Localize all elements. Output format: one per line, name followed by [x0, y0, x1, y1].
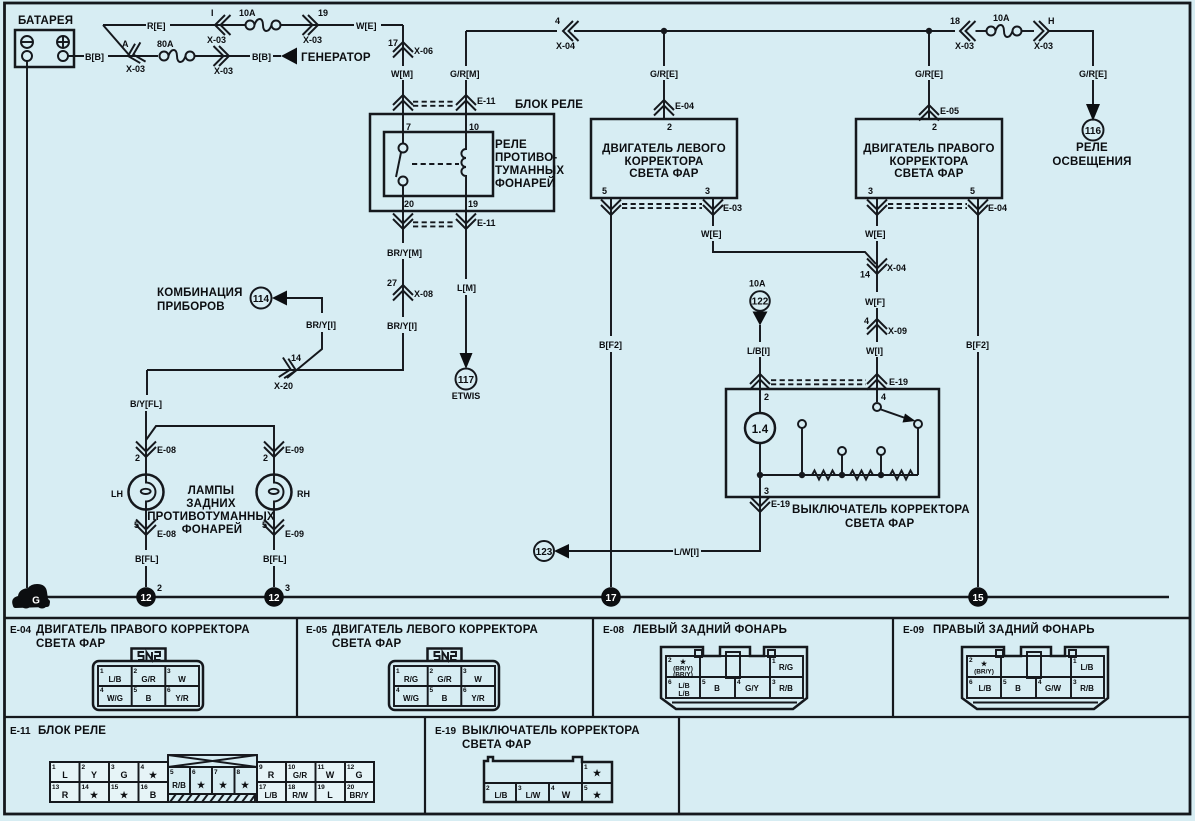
svg-text:7: 7 [406, 122, 411, 132]
svg-text:R/G: R/G [404, 675, 418, 684]
svg-text:L/W[I]: L/W[I] [674, 547, 699, 557]
svg-text:LH: LH [111, 489, 123, 499]
switch arm pin4 [876, 389, 878, 402]
svg-text:СВЕТА ФАР: СВЕТА ФАР [36, 638, 106, 650]
wire W[I] [876, 357, 878, 389]
svg-text:B: B [150, 790, 157, 800]
svg-text:СВЕТА ФАР: СВЕТА ФАР [462, 739, 532, 751]
svg-text:80A: 80A [157, 39, 174, 49]
ground node 12 LH [136, 587, 156, 607]
svg-text:G: G [355, 770, 362, 780]
svg-text:E-05: E-05 [306, 625, 328, 636]
svg-text:R/B: R/B [779, 684, 793, 693]
svg-text:6: 6 [969, 679, 973, 686]
svg-text:★: ★ [593, 768, 602, 778]
svg-text:116: 116 [1085, 126, 1102, 137]
node junction dot right motor [926, 28, 932, 34]
svg-text:14: 14 [291, 353, 301, 363]
connector X-04 14 [867, 259, 887, 275]
wire R[E] [103, 24, 245, 26]
svg-text:L: L [327, 790, 333, 800]
connector X-04 4 [563, 21, 579, 41]
svg-text:E-09: E-09 [285, 529, 304, 539]
svg-text:★: ★ [90, 790, 99, 800]
svg-text:ETWIS: ETWIS [452, 391, 481, 401]
connector E-03 pin3 bottom [703, 200, 723, 216]
svg-text:12: 12 [347, 764, 355, 771]
wire B[FL] RH [273, 566, 275, 587]
svg-text:W[M]: W[M] [391, 69, 413, 79]
fog lamp relay inner box [384, 132, 493, 196]
svg-text:E-08: E-08 [157, 529, 176, 539]
battery [15, 30, 74, 67]
svg-text:R/B: R/B [1080, 684, 1094, 693]
connector E-11 pin7 top [393, 95, 413, 111]
svg-text:6: 6 [668, 679, 672, 686]
svg-text:10A: 10A [993, 13, 1010, 23]
svg-text:3: 3 [167, 668, 171, 675]
wire B[F2] left [610, 198, 612, 587]
svg-text:2: 2 [430, 668, 434, 675]
svg-text:G/R[E]: G/R[E] [650, 69, 678, 79]
svg-text:16: 16 [141, 784, 149, 791]
svg-text:B[F2]: B[F2] [966, 340, 989, 350]
LH rear fog lamp [145, 411, 147, 475]
svg-text:ФОНАРЕЙ: ФОНАРЕЙ [495, 177, 555, 190]
contact 3 [877, 447, 885, 455]
connector X-06 [393, 42, 413, 58]
svg-text:17: 17 [259, 784, 267, 791]
svg-text:E-19: E-19 [771, 499, 790, 509]
contact 4 riser [917, 428, 919, 475]
svg-text:БАТАРЕЯ: БАТАРЕЯ [18, 15, 73, 27]
ground node 15 [968, 587, 988, 607]
svg-text:H: H [1048, 16, 1055, 26]
svg-text:РЕЛЕ: РЕЛЕ [495, 139, 527, 151]
svg-text:L/B: L/B [1081, 663, 1094, 672]
resistor 1 [812, 471, 835, 480]
svg-text:3: 3 [111, 764, 115, 771]
svg-text:E-19: E-19 [435, 726, 457, 737]
svg-text:7: 7 [214, 769, 218, 776]
svg-text:B: B [146, 694, 152, 703]
svg-text:E-19: E-19 [889, 377, 908, 387]
svg-text:2: 2 [263, 453, 268, 463]
fuse 10A left [246, 19, 281, 31]
svg-text:1.4: 1.4 [752, 424, 769, 436]
node 123 [534, 541, 554, 561]
svg-text:20: 20 [404, 199, 414, 209]
svg-text:W[E]: W[E] [865, 229, 886, 239]
wire BR/Y[M] [402, 229, 404, 317]
svg-text:L/B: L/B [495, 791, 508, 800]
svg-text:1: 1 [52, 764, 56, 771]
svg-text:BR/Y[M]: BR/Y[M] [387, 248, 422, 258]
svg-text:ТУМАННЫХ: ТУМАННЫХ [495, 165, 564, 177]
node 116 [1083, 120, 1104, 141]
svg-text:X-03: X-03 [207, 35, 226, 45]
fuse 80A [160, 50, 195, 62]
relay switch contacts [399, 144, 408, 153]
svg-text:Y/R: Y/R [175, 694, 189, 703]
svg-text:R: R [268, 770, 275, 780]
svg-text:ПРАВЫЙ ЗАДНИЙ ФОНАРЬ: ПРАВЫЙ ЗАДНИЙ ФОНАРЬ [933, 623, 1095, 636]
svg-text:1: 1 [772, 658, 776, 665]
ground G car symbol [12, 584, 50, 609]
svg-text:W: W [326, 770, 335, 780]
svg-text:4: 4 [881, 392, 886, 402]
svg-text:10: 10 [288, 764, 296, 771]
svg-text:БЛОК РЕЛЕ: БЛОК РЕЛЕ [38, 725, 106, 737]
svg-text:4: 4 [551, 785, 555, 792]
svg-text:2: 2 [135, 453, 140, 463]
svg-text:122: 122 [752, 297, 769, 308]
E-05 connector [389, 649, 499, 711]
E-08 connector [661, 647, 807, 709]
relay dashed link [412, 163, 459, 165]
svg-text:СВЕТА ФАР: СВЕТА ФАР [894, 168, 964, 180]
svg-text:★: ★ [981, 660, 988, 668]
svg-text:ПРОТИВОТУМАННЫХ: ПРОТИВОТУМАННЫХ [147, 511, 275, 523]
svg-text:I: I [211, 8, 214, 18]
svg-text:(BR/Y): (BR/Y) [673, 672, 693, 679]
wire BR/Y[I] left [287, 298, 322, 378]
wire L/W[I] [569, 497, 760, 551]
svg-text:★: ★ [241, 780, 250, 790]
svg-text:15: 15 [972, 593, 984, 604]
svg-text:★: ★ [593, 790, 602, 800]
svg-text:9: 9 [259, 764, 263, 771]
svg-text:X-03: X-03 [303, 35, 322, 45]
wire battery plus B[B] [68, 55, 129, 57]
resistor 3 [890, 471, 913, 480]
wire G/R[E] left motor [663, 31, 665, 119]
svg-text:2: 2 [969, 657, 973, 664]
connector E-11 pin19 bottom [456, 214, 476, 230]
svg-text:W: W [178, 675, 186, 684]
svg-text:4: 4 [555, 16, 560, 26]
svg-text:L/B[I]: L/B[I] [747, 346, 770, 356]
svg-text:19: 19 [318, 8, 328, 18]
resistor 2 [850, 471, 873, 480]
svg-text:E-03: E-03 [723, 203, 742, 213]
svg-text:15: 15 [111, 784, 119, 791]
svg-text:СВЕТА ФАР: СВЕТА ФАР [332, 638, 402, 650]
wire 80A branch [129, 55, 158, 57]
svg-text:★: ★ [120, 790, 129, 800]
svg-text:E-09: E-09 [903, 625, 925, 636]
svg-text:11: 11 [318, 764, 325, 771]
svg-text:18: 18 [950, 16, 960, 26]
svg-text:Y: Y [91, 770, 97, 780]
contact 1 [798, 420, 806, 428]
svg-text:E-05: E-05 [940, 106, 959, 116]
svg-text:L[M]: L[M] [457, 283, 476, 293]
wire L[M] [465, 229, 467, 353]
svg-text:BR/Y[I]: BR/Y[I] [387, 321, 417, 331]
svg-text:3: 3 [705, 186, 710, 196]
svg-text:2: 2 [668, 657, 672, 664]
wire diagonal to R[E] [103, 25, 130, 56]
right corrector motor box [856, 119, 1002, 198]
svg-text:E-09: E-09 [285, 445, 304, 455]
wire G/R[E] right motor [928, 31, 930, 119]
svg-text:W[I]: W[I] [866, 346, 883, 356]
svg-text:G/W: G/W [1045, 684, 1061, 693]
svg-text:E-08: E-08 [603, 625, 625, 636]
svg-text:W[F]: W[F] [865, 297, 885, 307]
wire W[E] right vertical [876, 198, 878, 292]
svg-text:3: 3 [463, 668, 467, 675]
arrow to 117 [460, 353, 473, 369]
ground node 17 [601, 587, 621, 607]
table grid [4, 618, 1189, 813]
connector E-04 top [654, 100, 674, 116]
connector E-05 top [919, 105, 939, 121]
svg-text:1: 1 [396, 668, 400, 675]
generator arrow [281, 48, 297, 65]
svg-text:Y/R: Y/R [471, 694, 485, 703]
svg-text:R: R [62, 790, 69, 800]
svg-text:КОРРЕКТОРА: КОРРЕКТОРА [890, 156, 969, 168]
svg-text:117: 117 [458, 375, 475, 386]
arrow to 116 [1086, 104, 1100, 121]
svg-text:5: 5 [134, 687, 138, 694]
svg-text:5: 5 [702, 679, 706, 686]
svg-text:17: 17 [388, 38, 398, 48]
svg-text:E-04: E-04 [10, 625, 32, 636]
svg-text:1: 1 [1073, 658, 1077, 665]
svg-text:ЛАМПЫ: ЛАМПЫ [188, 485, 234, 497]
wire W[E] left [713, 198, 876, 264]
svg-text:B: B [1015, 684, 1021, 693]
svg-text:X-06: X-06 [414, 46, 433, 56]
svg-text:5: 5 [1003, 679, 1007, 686]
svg-text:17: 17 [605, 593, 617, 604]
switch internal bus [760, 474, 918, 476]
svg-text:2: 2 [764, 392, 769, 402]
svg-text:2: 2 [82, 764, 86, 771]
svg-text:ЗАДНИХ: ЗАДНИХ [186, 498, 236, 510]
svg-text:ГЕНЕРАТОР: ГЕНЕРАТОР [301, 52, 371, 64]
svg-text:10A: 10A [239, 8, 256, 18]
svg-text:4: 4 [141, 764, 145, 771]
svg-text:ОСВЕЩЕНИЯ: ОСВЕЩЕНИЯ [1052, 156, 1131, 168]
node 117 ETWIS [456, 369, 477, 390]
wire pin20 [402, 186, 404, 230]
svg-text:19: 19 [468, 199, 478, 209]
svg-text:ПРОТИВО-: ПРОТИВО- [495, 152, 557, 164]
svg-text:L: L [62, 770, 68, 780]
svg-text:10: 10 [469, 122, 479, 132]
svg-text:ПРИБОРОВ: ПРИБОРОВ [157, 301, 225, 313]
node junction X-03 A [125, 42, 145, 65]
svg-text:КОРРЕКТОРА: КОРРЕКТОРА [625, 156, 704, 168]
svg-text:X-03: X-03 [1034, 41, 1053, 51]
svg-text:G/R[E]: G/R[E] [915, 69, 943, 79]
wire W[M] vertical [402, 25, 404, 93]
svg-text:R/W: R/W [292, 791, 308, 800]
wire L/B[I] [759, 325, 761, 389]
svg-text:B[FL]: B[FL] [263, 554, 287, 564]
svg-text:L/B: L/B [678, 691, 689, 698]
svg-text:6: 6 [192, 769, 196, 776]
svg-text:8: 8 [237, 769, 241, 776]
svg-text:5: 5 [602, 186, 607, 196]
wire G/R[E] to 116 [1049, 31, 1093, 104]
svg-text:5: 5 [430, 687, 434, 694]
connector E-04 pin3 bottom [867, 200, 887, 216]
svg-text:5: 5 [584, 785, 588, 792]
svg-text:2: 2 [932, 122, 937, 132]
svg-text:3: 3 [764, 486, 769, 496]
svg-text:X-08: X-08 [414, 289, 433, 299]
wire B[F2] right [977, 198, 979, 587]
svg-text:G/Y: G/Y [745, 684, 759, 693]
ground node 12 RH [264, 587, 284, 607]
wire pin19 [465, 196, 467, 229]
svg-text:X-09: X-09 [888, 326, 907, 336]
wire pin7 into relay [402, 93, 404, 144]
svg-text:4: 4 [864, 316, 869, 326]
svg-text:РЕЛЕ: РЕЛЕ [1076, 142, 1108, 154]
svg-text:5: 5 [170, 769, 174, 776]
svg-text:E-04: E-04 [675, 101, 694, 111]
svg-text:19: 19 [318, 784, 326, 791]
svg-text:2: 2 [134, 668, 138, 675]
svg-text:3: 3 [868, 186, 873, 196]
svg-text:BR/Y[I]: BR/Y[I] [306, 320, 336, 330]
wire BR/Y[I] right [296, 333, 403, 370]
connector X-03 H [1022, 30, 1034, 32]
contact 2 [838, 447, 846, 455]
svg-text:E-11: E-11 [477, 96, 496, 106]
svg-text:E-11: E-11 [477, 218, 496, 228]
wire battery minus to ground [26, 61, 28, 588]
svg-text:B: B [714, 684, 720, 693]
svg-text:6: 6 [167, 687, 171, 694]
svg-text:B/Y[FL]: B/Y[FL] [130, 399, 162, 409]
svg-text:ВЫКЛЮЧАТЕЛЬ КОРРЕКТОРА: ВЫКЛЮЧАТЕЛЬ КОРРЕКТОРА [792, 504, 970, 516]
svg-text:ЛЕВЫЙ ЗАДНИЙ ФОНАРЬ: ЛЕВЫЙ ЗАДНИЙ ФОНАРЬ [633, 623, 787, 636]
svg-text:X-03: X-03 [126, 64, 145, 74]
svg-text:5: 5 [262, 520, 267, 530]
svg-text:3: 3 [285, 583, 290, 593]
svg-text:X-04: X-04 [556, 41, 575, 51]
leveling switch box [726, 389, 939, 497]
svg-text:G: G [32, 596, 40, 607]
svg-text:КОМБИНАЦИЯ: КОМБИНАЦИЯ [157, 287, 243, 299]
arrow to 114 [272, 291, 287, 306]
svg-text:1: 1 [584, 764, 588, 771]
svg-text:ДВИГАТЕЛЬ ЛЕВОГО КОРРЕКТОРА: ДВИГАТЕЛЬ ЛЕВОГО КОРРЕКТОРА [332, 624, 538, 636]
svg-text:E-08: E-08 [157, 445, 176, 455]
svg-text:10A: 10A [749, 279, 766, 289]
wire B[B] generator [229, 55, 281, 57]
svg-text:L/B: L/B [109, 675, 122, 684]
wire B/Y[FL] down [147, 370, 296, 395]
svg-text:G: G [120, 770, 127, 780]
svg-text:12: 12 [268, 593, 280, 604]
connector E-09 pin5 [273, 510, 275, 551]
RH rear fog lamp [257, 475, 292, 510]
ground bus [44, 596, 1169, 599]
svg-text:W[E]: W[E] [356, 21, 377, 31]
arrow from 122 [753, 312, 768, 326]
svg-text:G/R: G/R [141, 675, 155, 684]
svg-text:B[FL]: B[FL] [135, 554, 159, 564]
svg-text:L/B: L/B [979, 684, 992, 693]
node 114 [251, 288, 272, 309]
connector X-03 I [215, 15, 231, 35]
wire B[FL] LH [145, 566, 147, 587]
wire W[F] [876, 308, 878, 342]
svg-text:★: ★ [219, 780, 228, 790]
svg-text:★: ★ [197, 780, 206, 790]
svg-text:L/B: L/B [678, 683, 689, 690]
svg-text:L/W: L/W [526, 791, 541, 800]
svg-text:B[B]: B[B] [85, 52, 104, 62]
svg-text:W/G: W/G [403, 694, 419, 703]
E-19 connector [484, 757, 612, 802]
svg-text:W/G: W/G [107, 694, 123, 703]
svg-text:14: 14 [82, 784, 90, 791]
svg-text:ДВИГАТЕЛЬ ПРАВОГО: ДВИГАТЕЛЬ ПРАВОГО [863, 143, 994, 155]
svg-text:СВЕТА ФАР: СВЕТА ФАР [845, 518, 915, 530]
svg-text:3: 3 [772, 679, 776, 686]
svg-text:X-20: X-20 [274, 381, 293, 391]
svg-text:2: 2 [157, 583, 162, 593]
connector E-19 pin4 top [867, 374, 887, 390]
svg-text:27: 27 [387, 278, 397, 288]
svg-text:2: 2 [486, 785, 490, 792]
wire branch to RH lamp [146, 426, 274, 475]
svg-text:★: ★ [149, 770, 158, 780]
svg-text:БЛОК РЕЛЕ: БЛОК РЕЛЕ [515, 99, 583, 111]
svg-text:G/R: G/R [293, 771, 307, 780]
connector X-20 14 [279, 357, 298, 380]
svg-text:114: 114 [253, 294, 270, 305]
svg-text:СВЕТА ФАР: СВЕТА ФАР [629, 168, 699, 180]
connector E-11 pin10 top [456, 95, 476, 111]
svg-text:X-03: X-03 [214, 66, 233, 76]
wire top bus right [466, 30, 955, 32]
svg-text:123: 123 [536, 547, 553, 558]
arrow to 123 [554, 544, 569, 559]
svg-text:2: 2 [667, 122, 672, 132]
connector E-11 pin20 bottom [393, 214, 413, 230]
svg-text:BR/Y: BR/Y [349, 791, 369, 800]
svg-text:ДВИГАТЕЛЬ ЛЕВОГО: ДВИГАТЕЛЬ ЛЕВОГО [602, 143, 726, 155]
svg-text:G/R[E]: G/R[E] [1079, 69, 1107, 79]
svg-text:B[F2]: B[F2] [599, 340, 622, 350]
svg-text:X-04: X-04 [887, 263, 906, 273]
svg-text:R/G: R/G [779, 663, 793, 672]
svg-text:6: 6 [463, 687, 467, 694]
connector E-03 pin5 bottom [601, 200, 621, 216]
connector E-08 pin2 [136, 442, 156, 458]
svg-text:W: W [474, 675, 482, 684]
E-11 connector [50, 755, 374, 802]
svg-text:5: 5 [970, 186, 975, 196]
relay coil [461, 149, 466, 196]
svg-text:18: 18 [288, 784, 296, 791]
svg-text:B: B [442, 694, 448, 703]
rheostat 1.4 [759, 389, 761, 413]
svg-text:4: 4 [1038, 679, 1042, 686]
svg-text:4: 4 [396, 687, 400, 694]
connector E-19 pin2 top [750, 374, 770, 390]
